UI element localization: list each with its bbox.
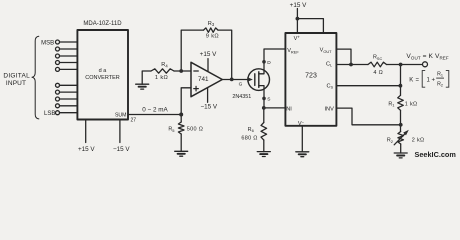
svg-text:K: K [409, 78, 413, 84]
svg-text:VOUT: VOUT [320, 48, 333, 54]
svg-text:4 Ω: 4 Ω [373, 70, 383, 76]
svg-text:CS: CS [327, 83, 334, 89]
svg-text:=: = [416, 78, 420, 84]
svg-text:R1: R1 [388, 101, 395, 107]
svg-text:R2: R2 [387, 138, 394, 144]
svg-text:D: D [267, 60, 271, 66]
svg-text:S: S [267, 97, 270, 103]
svg-text:−15 V: −15 V [113, 146, 130, 153]
svg-text:741: 741 [198, 76, 209, 83]
svg-text:0 − 2 mA: 0 − 2 mA [142, 106, 168, 113]
svg-text:723: 723 [305, 72, 317, 79]
svg-text:MSB: MSB [41, 40, 54, 46]
svg-text:SeekIC.com: SeekIC.com [415, 150, 457, 159]
svg-text:27: 27 [131, 118, 137, 124]
svg-text:VREF: VREF [287, 48, 299, 54]
svg-text:−15 V: −15 V [200, 103, 217, 110]
svg-text:INPUT: INPUT [6, 80, 26, 87]
svg-text:CL: CL [326, 61, 333, 67]
svg-text:MDA-10Z-11D: MDA-10Z-11D [83, 21, 122, 27]
svg-text:LSB: LSB [44, 111, 55, 117]
svg-text:d a: d a [99, 68, 108, 74]
svg-text:+15 V: +15 V [290, 2, 307, 9]
svg-text:G: G [239, 82, 243, 88]
svg-text:1 +: 1 + [427, 78, 436, 84]
svg-text:DIGITAL: DIGITAL [3, 73, 30, 80]
svg-text:SUM: SUM [115, 112, 127, 118]
svg-text:R3: R3 [208, 21, 215, 27]
svg-text:500 Ω: 500 Ω [187, 127, 203, 133]
svg-text:INV: INV [325, 106, 335, 112]
svg-text:NI: NI [286, 106, 292, 112]
svg-text:R6: R6 [248, 127, 255, 133]
svg-text:R5: R5 [168, 127, 175, 133]
svg-text:2N4351: 2N4351 [232, 94, 251, 100]
svg-text:9 kΩ: 9 kΩ [206, 33, 219, 39]
svg-text:1 kΩ: 1 kΩ [405, 101, 418, 107]
svg-text:2 kΩ: 2 kΩ [412, 138, 425, 144]
svg-text:CONVERTER: CONVERTER [85, 75, 119, 81]
svg-text:680 Ω: 680 Ω [241, 136, 257, 142]
svg-text:R4: R4 [161, 62, 168, 68]
svg-text:1 kΩ: 1 kΩ [155, 75, 168, 81]
svg-text:+15 V: +15 V [78, 146, 95, 153]
svg-text:+15 V: +15 V [200, 51, 217, 58]
